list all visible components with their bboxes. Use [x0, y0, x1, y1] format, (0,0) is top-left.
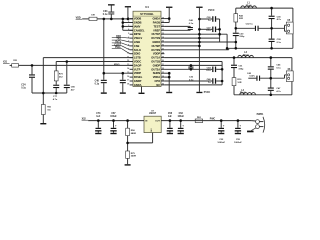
svg-text:SDIO: SDIO — [134, 52, 140, 56]
svg-text:22uH: 22uH — [246, 5, 252, 7]
svg-text:X32: X32 — [82, 118, 87, 120]
svg-text:OUT: OUT — [155, 121, 160, 123]
svg-text:680R: 680R — [131, 133, 137, 135]
svg-text:VDDC: VDDC — [134, 59, 141, 63]
svg-text:360R: 360R — [131, 156, 137, 158]
svg-text:SHDN: SHDN — [153, 71, 160, 75]
svg-text:MISO: MISO — [114, 64, 120, 66]
svg-text:0.1u: 0.1u — [276, 67, 281, 69]
svg-text:RXD: RXD — [116, 36, 121, 38]
svg-text:GNDA: GNDA — [152, 17, 160, 21]
svg-text:PAOB: PAOB — [153, 20, 160, 24]
svg-text:22R: 22R — [239, 18, 243, 20]
svg-text:PVCC: PVCC — [208, 10, 215, 12]
svg-text:INITB: INITB — [134, 32, 141, 36]
svg-text:330p: 330p — [238, 68, 244, 70]
svg-text:TEST: TEST — [153, 24, 160, 28]
svg-text:VDDB: VDDB — [134, 17, 141, 21]
svg-text:R35: R35 — [13, 60, 16, 62]
svg-text:VLTP: VLTP — [134, 67, 141, 71]
svg-text:10R: 10R — [237, 82, 241, 84]
svg-text:GNDP: GNDP — [134, 79, 142, 83]
svg-text:RxTx: RxTx — [115, 42, 121, 44]
svg-text:0.1u: 0.1u — [103, 14, 108, 16]
svg-text:U4: U4 — [145, 5, 149, 9]
svg-text:LINB: LINB — [134, 40, 140, 44]
svg-text:330p: 330p — [239, 36, 245, 38]
svg-text:DAOP: DAOP — [134, 63, 142, 67]
svg-text:100uF: 100uF — [177, 116, 184, 118]
svg-text:OUT1A: OUT1A — [151, 56, 160, 60]
svg-text:OUT2A: OUT2A — [151, 67, 160, 71]
svg-text:+: + — [115, 123, 117, 127]
svg-text:OUT1B: OUT1B — [151, 59, 160, 63]
svg-text:1k6: 1k6 — [47, 109, 50, 111]
svg-text:VREF: VREF — [153, 28, 160, 32]
svg-text:4.7n: 4.7n — [53, 98, 58, 101]
svg-text:ST7540BL: ST7540BL — [140, 12, 154, 16]
svg-text:1000uF: 1000uF — [234, 142, 242, 144]
svg-text:IAMV: IAMV — [134, 24, 141, 28]
svg-text:GNDO: GNDO — [152, 40, 160, 44]
svg-text:0.1u: 0.1u — [206, 70, 211, 72]
svg-text:CPO: CPO — [154, 79, 160, 83]
svg-text:OUT1N: OUT1N — [151, 36, 160, 40]
svg-text:GNDB: GNDB — [134, 20, 142, 24]
svg-text:0.1u: 0.1u — [277, 42, 282, 44]
svg-text:LSTB: LSTB — [134, 56, 141, 60]
svg-text:PWC: PWC — [210, 119, 216, 121]
svg-text:+: + — [182, 123, 184, 127]
svg-text:0.1u: 0.1u — [95, 83, 100, 85]
svg-text:C33: C33 — [103, 11, 108, 13]
svg-text:C34: C34 — [21, 84, 26, 87]
svg-text:SCLK: SCLK — [134, 48, 141, 52]
svg-text:OUT2P: OUT2P — [151, 44, 160, 48]
svg-text:22uH: 22uH — [240, 93, 246, 95]
svg-text:C48: C48 — [95, 79, 100, 82]
svg-text:22uH: 22uH — [243, 55, 249, 57]
svg-text:C32 1u: C32 1u — [246, 24, 254, 26]
svg-text:CSB: CSB — [134, 44, 140, 48]
svg-text:CANSEL: CANSEL — [134, 28, 145, 32]
svg-text:VDD: VDD — [76, 16, 81, 19]
svg-text:LM317: LM317 — [149, 113, 157, 115]
svg-text:C67: C67 — [111, 113, 116, 115]
svg-text:+: + — [239, 123, 241, 127]
svg-text:VDDP: VDDP — [134, 71, 141, 75]
svg-text:TXD: TXD — [116, 39, 121, 41]
svg-text:1uF: 1uF — [96, 116, 101, 118]
svg-text:OUT2N: OUT2N — [151, 48, 160, 52]
svg-text:+: + — [223, 123, 225, 127]
svg-text:PSEL: PSEL — [115, 47, 122, 49]
svg-text:ADJ: ADJ — [150, 128, 153, 132]
svg-text:X31: X31 — [3, 62, 8, 64]
svg-text:NC: NC — [156, 83, 160, 87]
svg-text:0.1u: 0.1u — [21, 88, 26, 90]
svg-text:R66: R66 — [47, 106, 50, 108]
svg-text:0.1u: 0.1u — [189, 23, 194, 25]
svg-text:C63: C63 — [179, 113, 184, 115]
svg-text:4.7u: 4.7u — [276, 90, 281, 93]
svg-text:1000uF: 1000uF — [217, 142, 225, 144]
svg-text:PASEL: PASEL — [134, 75, 143, 79]
svg-text:1uF: 1uF — [168, 116, 173, 118]
svg-text:100uF: 100uF — [110, 116, 117, 118]
svg-text:0.1u: 0.1u — [206, 30, 211, 32]
svg-text:0.47u: 0.47u — [249, 75, 255, 78]
svg-text:VDDP: VDDP — [153, 52, 160, 56]
svg-text:VSELV: VSELV — [134, 36, 143, 40]
svg-text:VDDA: VDDA — [153, 75, 160, 79]
svg-text:OUT1P: OUT1P — [151, 32, 160, 36]
svg-text:PWR1: PWR1 — [257, 114, 264, 116]
svg-text:0.1u: 0.1u — [189, 79, 194, 81]
svg-text:C58: C58 — [168, 113, 173, 115]
svg-text:C73: C73 — [96, 113, 101, 115]
svg-text:GNDP: GNDP — [153, 63, 161, 67]
svg-text:PVCC: PVCC — [204, 92, 211, 94]
svg-text:4.7u: 4.7u — [277, 18, 282, 21]
svg-text:GNDA: GNDA — [134, 83, 142, 87]
svg-text:CLR/T: CLR/T — [114, 44, 121, 46]
